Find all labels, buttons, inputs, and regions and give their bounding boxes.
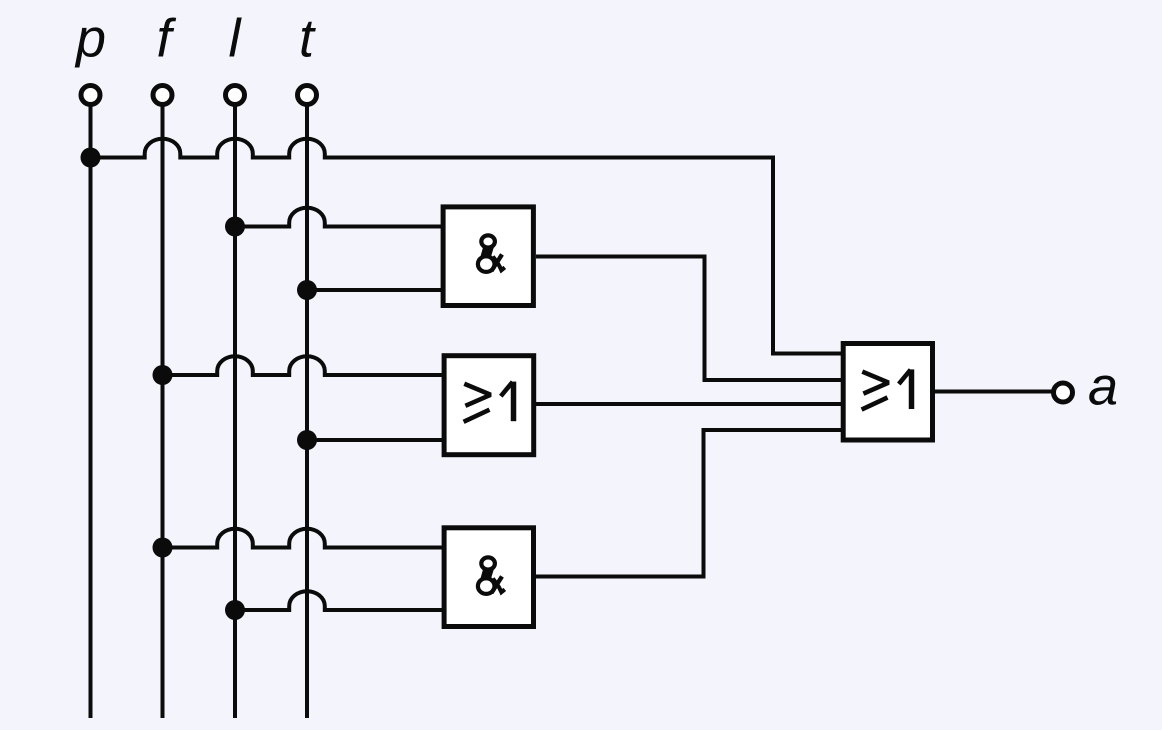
wire vertical p xyxy=(89,105,93,719)
wire t to OR1 input2 xyxy=(307,438,446,442)
or-gate U4 xyxy=(843,344,932,441)
wire vertical l xyxy=(233,105,237,719)
wire f to AND2 input1 (hops l,t) xyxy=(163,529,447,548)
wire l to AND1 input1 (hops t) xyxy=(235,208,446,227)
wire OR1 output to OR2 input3 xyxy=(536,402,843,406)
terminal a xyxy=(1054,383,1073,402)
wire p to OR2 input1 (hops f,l,t) xyxy=(91,139,844,354)
wire l to AND2 input2 (hops t) xyxy=(235,591,446,610)
junction l row2 xyxy=(225,217,245,237)
terminal p xyxy=(81,86,100,105)
junction f row4 xyxy=(153,365,173,385)
junction l row7 xyxy=(225,600,245,620)
svg-text:f: f xyxy=(156,9,176,69)
terminal l xyxy=(226,86,245,105)
junction p row1 xyxy=(81,148,101,168)
svg-text:t: t xyxy=(299,9,316,69)
svg-text:a: a xyxy=(1088,357,1118,417)
or-gate U2 xyxy=(444,356,534,455)
junction f row6 xyxy=(153,538,173,558)
and-gate U1 xyxy=(443,207,533,306)
wire U4 output to terminal a xyxy=(935,390,1052,394)
wire f to OR1 input1 (hops l,t) xyxy=(163,356,447,375)
wire AND1 output to OR2 input2 xyxy=(536,257,843,381)
and-gate U3 xyxy=(444,528,533,627)
wire AND2 output to OR2 input4 xyxy=(536,430,843,577)
terminal f xyxy=(153,86,172,105)
wire t to AND1 input2 xyxy=(307,288,446,292)
svg-text:l: l xyxy=(229,9,243,69)
junction t row5 xyxy=(297,430,317,450)
wire vertical t xyxy=(305,105,309,719)
junction t row3 xyxy=(297,280,317,300)
terminal t xyxy=(298,86,317,105)
wire vertical f xyxy=(161,105,165,719)
svg-text:p: p xyxy=(74,9,106,69)
